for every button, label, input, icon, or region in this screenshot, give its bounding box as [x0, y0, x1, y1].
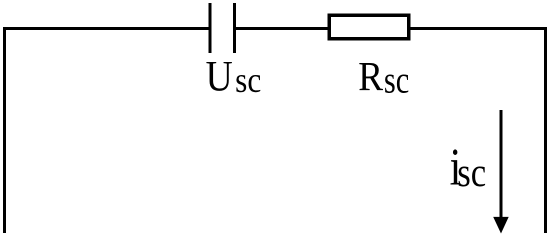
svg-text:R: R [358, 54, 384, 99]
wire right vertical branch [544, 27, 547, 233]
resistor R_sc body [329, 15, 409, 39]
wire top-left horizontal segment [3, 27, 210, 30]
wire between capacitor and resistor [235, 27, 330, 30]
svg-text:sc: sc [235, 61, 261, 100]
wire left vertical branch [3, 27, 6, 233]
capacitor U_sc left plate [209, 3, 212, 53]
label i_sc [450, 139, 487, 196]
capacitor U_sc right plate [233, 3, 236, 53]
label U_sc [206, 52, 262, 100]
svg-text:sc: sc [457, 150, 486, 195]
svg-text:sc: sc [384, 61, 409, 102]
svg-text:U: U [206, 52, 233, 100]
current arrow i_sc head [493, 217, 509, 234]
current arrow i_sc stem [500, 110, 503, 219]
wire resistor to top-right corner [411, 27, 548, 30]
label R_sc [358, 54, 409, 101]
